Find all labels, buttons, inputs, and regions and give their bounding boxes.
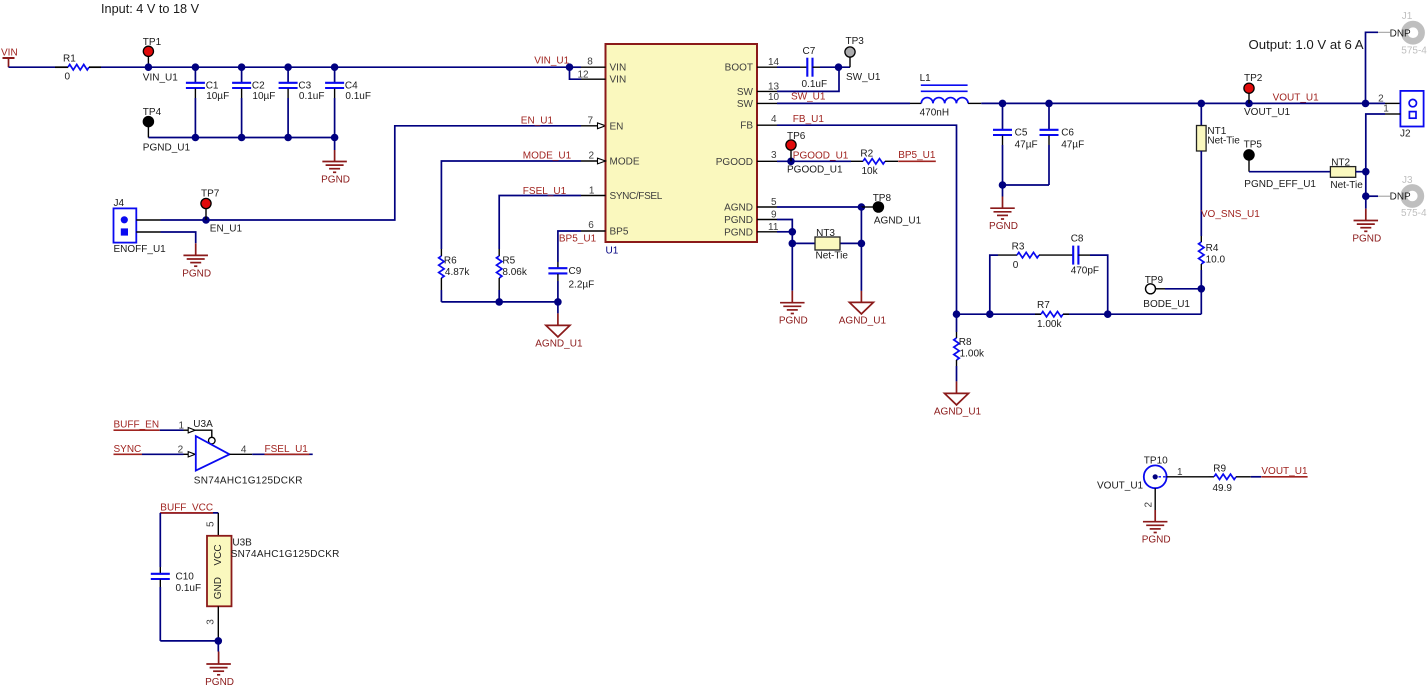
svg-text:470pF: 470pF <box>1071 265 1099 276</box>
svg-text:BP5: BP5 <box>610 227 629 238</box>
svg-text:2: 2 <box>178 445 184 456</box>
svg-text:TP7: TP7 <box>201 188 220 199</box>
svg-text:J4: J4 <box>114 198 125 209</box>
svg-text:1: 1 <box>589 185 595 196</box>
svg-text:12: 12 <box>577 69 589 80</box>
svg-text:2.2µF: 2.2µF <box>569 280 595 291</box>
svg-text:TP2: TP2 <box>1244 73 1263 84</box>
svg-text:MODE: MODE <box>610 157 640 168</box>
svg-text:R3: R3 <box>1012 242 1025 253</box>
svg-text:1: 1 <box>178 421 184 432</box>
svg-text:FSEL_U1: FSEL_U1 <box>523 186 567 197</box>
svg-text:2: 2 <box>1144 502 1155 508</box>
svg-text:AGND_U1: AGND_U1 <box>839 316 887 327</box>
svg-text:U3B: U3B <box>232 538 252 549</box>
svg-text:0: 0 <box>1013 260 1019 271</box>
svg-text:Input: 4 V to 18 V: Input: 4 V to 18 V <box>101 2 200 16</box>
svg-text:GND: GND <box>213 577 224 599</box>
svg-text:VOUT_U1: VOUT_U1 <box>1244 107 1291 118</box>
svg-text:VIN: VIN <box>610 63 627 74</box>
svg-text:C5: C5 <box>1015 127 1028 138</box>
svg-text:MODE_U1: MODE_U1 <box>523 150 572 161</box>
svg-text:Net-Tie: Net-Tie <box>816 251 849 262</box>
svg-text:TP1: TP1 <box>143 37 162 48</box>
svg-text:0: 0 <box>65 72 71 83</box>
svg-text:Output: 1.0 V at 6 A: Output: 1.0 V at 6 A <box>1249 37 1364 52</box>
svg-text:BOOT: BOOT <box>725 63 753 74</box>
svg-text:VOUT_U1: VOUT_U1 <box>1273 92 1320 103</box>
svg-text:SW: SW <box>737 87 754 98</box>
svg-text:PGND_U1: PGND_U1 <box>143 143 191 154</box>
svg-text:0.1uF: 0.1uF <box>345 91 371 102</box>
svg-text:C2: C2 <box>252 81 265 92</box>
svg-text:PGND: PGND <box>321 174 350 185</box>
svg-text:AGND_U1: AGND_U1 <box>874 216 922 227</box>
svg-text:4: 4 <box>241 445 247 456</box>
svg-text:0.1uF: 0.1uF <box>299 91 325 102</box>
svg-text:1: 1 <box>1177 467 1183 478</box>
svg-text:PGND: PGND <box>1352 233 1381 244</box>
svg-text:VIN_U1: VIN_U1 <box>143 72 178 83</box>
svg-text:PGND: PGND <box>205 677 234 688</box>
svg-text:TP3: TP3 <box>846 36 865 47</box>
svg-text:1: 1 <box>1383 104 1389 115</box>
svg-text:EN: EN <box>610 121 624 132</box>
svg-text:470nH: 470nH <box>920 107 949 118</box>
svg-text:VO_SNS_U1: VO_SNS_U1 <box>1201 209 1260 220</box>
svg-text:TP10: TP10 <box>1144 456 1168 467</box>
svg-text:Net-Tie: Net-Tie <box>1207 136 1240 147</box>
svg-text:PGND: PGND <box>724 215 753 226</box>
svg-text:0.1uF: 0.1uF <box>176 583 202 594</box>
svg-text:NT2: NT2 <box>1331 157 1350 168</box>
svg-text:DNP: DNP <box>1390 29 1411 40</box>
svg-text:R9: R9 <box>1213 464 1226 475</box>
svg-text:SN74AHC1G125DCKR: SN74AHC1G125DCKR <box>231 549 340 560</box>
svg-text:SW_U1: SW_U1 <box>791 92 826 103</box>
svg-text:C9: C9 <box>569 266 582 277</box>
svg-text:47µF: 47µF <box>1015 139 1038 150</box>
svg-text:C4: C4 <box>345 81 358 92</box>
svg-text:R4: R4 <box>1206 243 1219 254</box>
svg-text:5: 5 <box>206 521 217 527</box>
svg-text:BUFF_EN: BUFF_EN <box>114 420 160 431</box>
svg-text:J1: J1 <box>1402 11 1413 22</box>
svg-text:PGND: PGND <box>182 268 211 279</box>
svg-text:SW: SW <box>737 99 754 110</box>
svg-text:Net-Tie: Net-Tie <box>1330 180 1363 191</box>
svg-text:SW_U1: SW_U1 <box>846 72 881 83</box>
svg-text:47µF: 47µF <box>1061 139 1084 150</box>
svg-text:VIN: VIN <box>1 48 18 59</box>
svg-text:TP4: TP4 <box>143 107 162 118</box>
svg-text:3: 3 <box>771 150 777 161</box>
svg-text:J3: J3 <box>1402 175 1413 186</box>
svg-text:J2: J2 <box>1400 128 1411 139</box>
svg-text:PGND: PGND <box>724 227 753 238</box>
svg-text:PGND: PGND <box>779 316 808 327</box>
svg-text:0.1uF: 0.1uF <box>802 79 828 90</box>
svg-text:VOUT_U1: VOUT_U1 <box>1261 466 1308 477</box>
svg-text:10k: 10k <box>862 166 879 177</box>
svg-text:AGND_U1: AGND_U1 <box>934 407 982 418</box>
svg-text:FB: FB <box>740 121 753 132</box>
svg-text:DNP: DNP <box>1390 191 1411 202</box>
svg-text:PGOOD_U1: PGOOD_U1 <box>787 165 843 176</box>
svg-text:FB_U1: FB_U1 <box>793 114 825 125</box>
svg-text:C3: C3 <box>298 81 311 92</box>
svg-text:VIN_U1: VIN_U1 <box>534 55 569 66</box>
svg-text:1.00k: 1.00k <box>1037 319 1062 330</box>
svg-text:SN74AHC1G125DCKR: SN74AHC1G125DCKR <box>194 475 303 486</box>
svg-text:L1: L1 <box>920 73 932 84</box>
svg-text:8.06k: 8.06k <box>502 267 527 278</box>
svg-text:C8: C8 <box>1071 234 1084 245</box>
svg-text:TP9: TP9 <box>1145 275 1164 286</box>
svg-text:4: 4 <box>771 114 777 125</box>
svg-text:3: 3 <box>206 619 217 625</box>
svg-text:7: 7 <box>587 116 593 127</box>
svg-text:10µF: 10µF <box>252 91 275 102</box>
svg-text:TP6: TP6 <box>787 131 806 142</box>
svg-text:SYNC/FSEL: SYNC/FSEL <box>610 191 663 202</box>
svg-text:R5: R5 <box>502 255 515 266</box>
svg-text:R6: R6 <box>444 255 457 266</box>
svg-text:NT3: NT3 <box>816 228 835 239</box>
svg-text:8: 8 <box>587 57 593 68</box>
svg-text:2: 2 <box>588 151 594 162</box>
svg-text:TP5: TP5 <box>1244 139 1263 150</box>
svg-text:PGND: PGND <box>989 221 1018 232</box>
svg-text:575-4: 575-4 <box>1401 46 1427 57</box>
svg-text:10µF: 10µF <box>206 91 229 102</box>
svg-text:49.9: 49.9 <box>1213 483 1233 494</box>
svg-text:VOUT_U1: VOUT_U1 <box>1097 480 1144 491</box>
svg-text:R2: R2 <box>860 149 873 160</box>
svg-text:TP8: TP8 <box>873 193 892 204</box>
svg-text:R8: R8 <box>959 337 972 348</box>
svg-text:BP5_U1: BP5_U1 <box>898 150 936 161</box>
svg-text:EN_U1: EN_U1 <box>210 223 243 234</box>
svg-text:U3A: U3A <box>193 419 213 430</box>
svg-text:C10: C10 <box>176 571 195 582</box>
svg-text:C1: C1 <box>206 81 219 92</box>
svg-text:C7: C7 <box>803 46 816 57</box>
svg-text:BODE_U1: BODE_U1 <box>1143 299 1190 310</box>
svg-text:C6: C6 <box>1061 127 1074 138</box>
svg-text:AGND: AGND <box>724 203 753 214</box>
svg-text:PGND_EFF_U1: PGND_EFF_U1 <box>1244 179 1316 190</box>
svg-text:BP5_U1: BP5_U1 <box>559 234 597 245</box>
svg-text:6: 6 <box>588 220 594 231</box>
svg-text:VIN: VIN <box>610 75 627 86</box>
svg-text:PGND: PGND <box>1142 535 1171 546</box>
svg-text:R7: R7 <box>1037 300 1050 311</box>
svg-text:575-4: 575-4 <box>1401 208 1427 219</box>
svg-text:BUFF_VCC: BUFF_VCC <box>160 503 213 514</box>
svg-text:4.87k: 4.87k <box>445 267 470 278</box>
svg-text:ENOFF_U1: ENOFF_U1 <box>114 244 167 255</box>
svg-text:10: 10 <box>768 92 780 103</box>
svg-text:R1: R1 <box>63 54 76 65</box>
svg-text:VCC: VCC <box>213 544 224 565</box>
svg-text:U1: U1 <box>606 246 619 257</box>
svg-text:EN_U1: EN_U1 <box>521 116 554 127</box>
svg-text:SYNC: SYNC <box>114 444 142 455</box>
svg-text:1.00k: 1.00k <box>960 349 985 360</box>
svg-text:PGOOD: PGOOD <box>716 157 753 168</box>
svg-text:AGND_U1: AGND_U1 <box>535 339 583 350</box>
svg-text:PGOOD_U1: PGOOD_U1 <box>793 151 849 162</box>
svg-text:10.0: 10.0 <box>1206 254 1226 265</box>
svg-text:FSEL_U1: FSEL_U1 <box>265 444 309 455</box>
